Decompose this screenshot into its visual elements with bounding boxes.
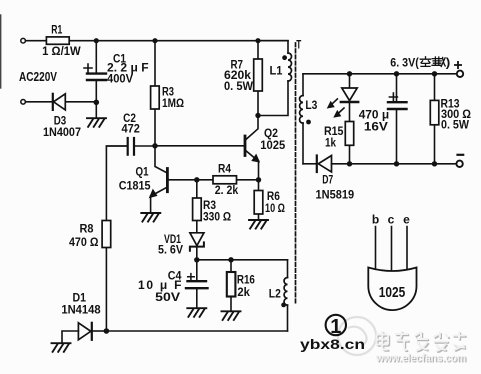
node D3 / C1 / ground	[94, 100, 100, 106]
svg-text:10 Ω: 10 Ω	[265, 201, 285, 215]
resistor R3 1M	[151, 41, 185, 146]
resistor R4 2.2k	[197, 161, 259, 197]
svg-text:1 Ω/1W: 1 Ω/1W	[42, 44, 81, 58]
node C2 / R3 / Q1 collector / Q2 base	[152, 143, 157, 148]
node R13 top	[432, 71, 437, 76]
resistor R15 1k	[324, 122, 354, 164]
wire Q2 base line	[155, 145, 244, 147]
resistor R8 470 ohm	[69, 146, 128, 331]
svg-text:www.elecfans.com: www.elecfans.com	[375, 353, 466, 365]
svg-text:D7: D7	[322, 173, 333, 187]
svg-text:b: b	[372, 213, 379, 227]
wire D3 to C1 ground node	[65, 101, 96, 103]
node filter cap top	[394, 71, 399, 76]
svg-text:1N4007: 1N4007	[43, 125, 81, 139]
svg-text:6. 3V(: 6. 3V(	[390, 55, 419, 69]
svg-text:2k: 2k	[237, 285, 250, 299]
svg-text:L3: L3	[305, 98, 317, 112]
polarity dot L1	[282, 55, 287, 60]
ground below C1	[87, 118, 106, 127]
zener diode VD1 5.6V	[158, 232, 204, 260]
svg-text:R1: R1	[51, 23, 62, 37]
node Q1 base / R4 / R3 330	[194, 177, 199, 182]
svg-text:R4: R4	[218, 161, 231, 175]
svg-text:16V: 16V	[364, 120, 388, 134]
wire secondary top rail	[303, 73, 457, 75]
ground below R16	[222, 311, 241, 320]
scan edge artifact left	[0, 15, 2, 88]
svg-text:5. 6V: 5. 6V	[158, 242, 183, 256]
transformer core T	[296, 38, 302, 304]
resistor R6 10 ohm	[254, 180, 285, 220]
inductor L2 feedback winding	[269, 260, 288, 331]
svg-text:1N5819: 1N5819	[316, 188, 355, 202]
resistor R7 620k	[224, 41, 262, 116]
transistor Q1 C1815	[119, 146, 168, 212]
svg-text:472: 472	[122, 122, 141, 136]
svg-text:T: T	[296, 38, 301, 52]
svg-text:400V: 400V	[107, 72, 133, 86]
watermark elecfans logo swirl	[338, 317, 376, 355]
wire secondary bottom rail	[332, 163, 457, 165]
svg-text:e: e	[403, 213, 410, 227]
transistor Q2 1025	[245, 116, 286, 180]
diode D1 1N4148	[61, 291, 106, 342]
inductor L1 primary winding	[258, 41, 292, 116]
ground below D1	[52, 343, 71, 352]
diode D7 1N5819	[316, 156, 355, 202]
svg-text:AC220V: AC220V	[19, 70, 58, 84]
svg-text:): )	[446, 55, 451, 69]
svg-text:1k: 1k	[325, 135, 336, 149]
node LED top	[347, 71, 352, 76]
capacitor C4 10uF	[138, 260, 208, 308]
wire Q1 base	[169, 179, 197, 181]
capacitor C1	[84, 41, 149, 118]
node R16 top	[228, 257, 233, 262]
watermark text elecfans chinese	[378, 332, 467, 352]
wire top rail	[26, 40, 289, 42]
figure number circled 1	[326, 315, 346, 338]
label output minus sign	[458, 154, 464, 156]
terminal AC input top	[21, 38, 26, 43]
ground below R6	[249, 220, 268, 229]
svg-text:c: c	[388, 213, 395, 227]
svg-text:470 Ω: 470 Ω	[69, 235, 99, 249]
svg-text:1025: 1025	[379, 284, 406, 301]
svg-text:Q1: Q1	[136, 164, 149, 178]
node R13 bottom	[432, 161, 437, 166]
node filter cap bottom	[394, 161, 399, 166]
polarity dot L3	[306, 120, 311, 125]
node junction top rail / R3	[152, 38, 157, 43]
svg-text:330 Ω: 330 Ω	[203, 210, 231, 224]
node R4 / R6 / Q2 emitter	[256, 177, 261, 182]
resistor R3 330 ohm	[193, 180, 232, 233]
svg-text:1025: 1025	[260, 138, 285, 152]
svg-text:ybx8.cn: ybx8.cn	[300, 336, 365, 352]
node junction top rail / R7	[255, 38, 260, 43]
label output voltage 6.3V	[390, 55, 461, 69]
svg-text:2. 2k: 2. 2k	[215, 183, 239, 197]
wire terminal to D3	[26, 101, 53, 103]
terminal AC input bottom	[21, 100, 26, 105]
resistor R16 2k	[227, 260, 255, 311]
pinout lead labels b c e	[372, 213, 410, 227]
terminal output minus	[456, 161, 462, 167]
node R8 / D1 / L2 return	[104, 328, 110, 334]
watermark url www.elecfans.com	[375, 353, 467, 366]
capacitor C2 472	[107, 111, 156, 155]
svg-text:L1: L1	[270, 64, 283, 78]
node R7 / L1 / Q2 collector	[255, 113, 260, 118]
svg-text:L2: L2	[269, 287, 281, 301]
svg-text:50V: 50V	[155, 290, 180, 304]
svg-text:1: 1	[330, 316, 341, 338]
terminal output plus	[457, 71, 463, 77]
svg-text:0. 5W: 0. 5W	[441, 118, 470, 132]
wire secondary bottom rail left	[303, 163, 316, 165]
svg-text:1N4148: 1N4148	[61, 303, 101, 317]
LED indicator diode	[328, 74, 359, 122]
wire feedback rail to L2	[197, 259, 288, 261]
svg-text:C1815: C1815	[119, 179, 151, 193]
inductor L3 secondary winding	[300, 74, 318, 164]
svg-text:1MΩ: 1MΩ	[162, 96, 184, 110]
svg-text:0. 5W: 0. 5W	[224, 79, 254, 93]
wire L2 return to D1 node	[106, 330, 287, 332]
node junction top rail / C1	[94, 38, 99, 43]
diode D3 1N4007	[43, 94, 81, 139]
resistor R1	[42, 23, 81, 58]
polarity dot L2	[281, 303, 286, 308]
pinout package 1025	[368, 227, 416, 311]
ground below C4	[187, 308, 206, 317]
ground below Q1 emitter	[141, 213, 160, 222]
capacitor 470u 16V	[359, 74, 407, 164]
node R15 bottom	[347, 161, 352, 166]
resistor R13 300 ohm	[430, 74, 471, 164]
svg-text:R8: R8	[80, 222, 94, 236]
node VD1 / C4 / feedback rail	[194, 257, 199, 262]
